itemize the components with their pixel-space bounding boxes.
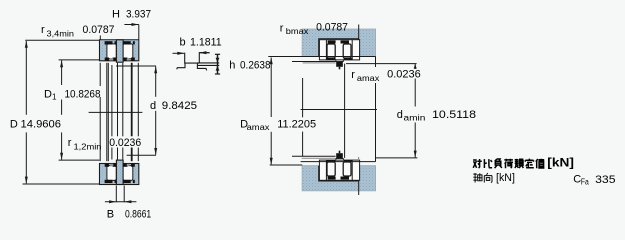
label rbmax 0.0787 bbox=[280, 22, 348, 36]
rb corner line top bbox=[358, 25, 360, 40]
rb corner line bottom bbox=[358, 181, 360, 195]
svg-text:[kN]: [kN] bbox=[496, 172, 515, 184]
svg-text:0.0236: 0.0236 bbox=[387, 68, 421, 80]
char dui bbox=[473, 159, 482, 168]
shaft silhouette lines bbox=[303, 57, 376, 162]
bearing top section bbox=[100, 40, 139, 62]
svg-text:3.937: 3.937 bbox=[126, 8, 151, 20]
mounted bearing bottom section (mirror) bbox=[319, 151, 359, 181]
char e (forehead) bbox=[515, 159, 524, 168]
svg-text:1,2min: 1,2min bbox=[74, 143, 102, 152]
svg-text:0.8661: 0.8661 bbox=[125, 209, 151, 221]
row2 CJK: 轴向 bbox=[473, 173, 492, 183]
centreline right figure bbox=[301, 109, 377, 111]
char ding bbox=[525, 159, 534, 168]
svg-text:Fa: Fa bbox=[581, 178, 589, 187]
svg-text:[kN]: [kN] bbox=[547, 158, 574, 170]
svg-text:amax: amax bbox=[247, 123, 270, 132]
housing top block bbox=[302, 29, 376, 56]
dimension damin 10.5118 bbox=[346, 64, 476, 158]
char zhou (axial) bbox=[473, 173, 482, 182]
label h 0.2638 bbox=[229, 59, 270, 71]
washer profile right with sleeve bbox=[197, 53, 219, 71]
cage bars top bbox=[105, 41, 113, 44]
svg-text:amin: amin bbox=[404, 113, 426, 122]
svg-text:D: D bbox=[10, 118, 18, 130]
dimension d 9.8425 bbox=[116, 66, 197, 155]
svg-text:335: 335 bbox=[595, 174, 615, 186]
housing bottom cavity outline bbox=[319, 166, 359, 181]
centreline left figure bbox=[89, 111, 143, 113]
svg-text:11.2205: 11.2205 bbox=[277, 119, 316, 131]
support ring gray lines bbox=[303, 62, 336, 64]
svg-text:9.8425: 9.8425 bbox=[162, 100, 197, 112]
char xiang (direction) bbox=[484, 173, 492, 183]
svg-text:r: r bbox=[41, 24, 45, 36]
dimension D1 10.8268 bbox=[44, 60, 101, 160]
dimension Damax 11.2205 bbox=[240, 57, 316, 165]
svg-text:amax: amax bbox=[357, 74, 380, 83]
char bi bbox=[484, 159, 492, 168]
shaft washer (centre column, top) bbox=[116, 40, 123, 62]
label b 1.1811 bbox=[180, 37, 222, 49]
washer profile left bbox=[177, 53, 200, 70]
svg-text:B: B bbox=[107, 209, 114, 221]
mounted bearing top section bbox=[319, 40, 359, 70]
svg-text:r: r bbox=[351, 69, 355, 81]
svg-text:d: d bbox=[150, 100, 156, 112]
svg-text:1.1811: 1.1811 bbox=[190, 37, 222, 49]
char zhi (value) bbox=[536, 159, 545, 169]
svg-text:b: b bbox=[180, 37, 186, 49]
cage feet bottom bbox=[105, 58, 109, 61]
dimension b arrows bbox=[173, 51, 210, 55]
svg-text:1: 1 bbox=[52, 93, 57, 102]
svg-text:d: d bbox=[397, 109, 403, 121]
housing bottom block bbox=[302, 166, 376, 191]
dimension h bbox=[215, 54, 220, 74]
svg-text:0.2638: 0.2638 bbox=[240, 59, 271, 71]
svg-text:0.0236: 0.0236 bbox=[109, 137, 141, 149]
label r1,2min 0.0236 bbox=[68, 137, 142, 152]
label ramax 0.0236 bbox=[351, 68, 420, 83]
dimension H 3.937 bbox=[112, 8, 151, 39]
ball right (top section) bbox=[123, 44, 133, 59]
svg-text:H: H bbox=[112, 8, 120, 20]
shaft washer protrusion + locating key bbox=[336, 60, 343, 62]
bore lines between sections bbox=[100, 63, 138, 161]
svg-text:D: D bbox=[44, 89, 52, 101]
svg-text:r: r bbox=[68, 137, 72, 149]
svg-text:bmax: bmax bbox=[286, 27, 309, 36]
svg-text:h: h bbox=[229, 59, 235, 71]
svg-text:r: r bbox=[280, 23, 284, 35]
svg-text:0.0787: 0.0787 bbox=[316, 22, 348, 34]
dimension B 0.8661 bbox=[105, 186, 151, 221]
abutment face lines bbox=[268, 57, 375, 166]
svg-text:3,4min: 3,4min bbox=[47, 30, 75, 39]
gray cage bits bbox=[110, 58, 113, 60]
char he (lotus) bbox=[504, 159, 513, 169]
svg-text:14.9606: 14.9606 bbox=[21, 118, 62, 130]
heading CJK (bold): 对比负荷额定值 bbox=[473, 159, 544, 169]
label r3,4min 0.0787 bbox=[41, 24, 115, 40]
svg-text:10.5118: 10.5118 bbox=[432, 109, 476, 121]
svg-text:0.0787: 0.0787 bbox=[83, 24, 115, 36]
svg-text:10.8268: 10.8268 bbox=[65, 89, 101, 101]
char fu bbox=[495, 159, 502, 168]
CFa 335 bbox=[573, 174, 615, 187]
ball left (top section) bbox=[107, 44, 116, 59]
dimension D 14.9606 bbox=[10, 40, 100, 184]
bearing bottom section (mirror) bbox=[100, 160, 139, 184]
housing top cavity outline bbox=[319, 39, 359, 57]
